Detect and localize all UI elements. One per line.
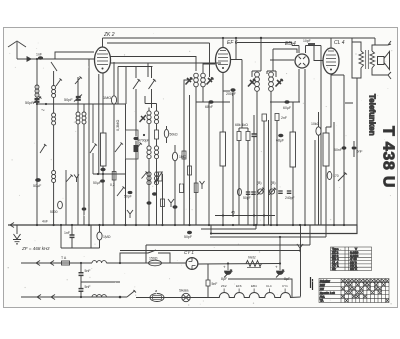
wire c81 col <box>80 263 82 297</box>
transformer T-out primary <box>359 51 364 68</box>
elco C+1 <box>225 264 232 275</box>
svg-text:4nF: 4nF <box>42 220 48 224</box>
switch S1c <box>66 170 73 225</box>
wire L2 down <box>53 125 55 170</box>
IF transformer T2 coils <box>255 72 274 91</box>
wire EF6 cath col <box>222 72 224 225</box>
svg-text:Sk: Sk <box>332 267 336 271</box>
node 256 <box>255 224 257 226</box>
svg-text:50µF: 50µF <box>33 184 42 188</box>
bypass loop <box>120 250 170 263</box>
svg-text:CL 4: CL 4 <box>334 40 345 46</box>
switch mains <box>127 290 136 297</box>
node A2 <box>45 103 47 105</box>
wire EB4 bottom <box>299 69 305 225</box>
IF transformer T1 coils <box>194 73 206 87</box>
wire EB4 top right <box>292 46 306 54</box>
table voltages <box>331 247 372 271</box>
wire EB4 grid feed <box>273 49 297 71</box>
TABLES <box>311 247 390 303</box>
wire c354 stub <box>353 141 355 157</box>
wire 45V row <box>215 215 275 217</box>
wire L1 top <box>36 59 38 85</box>
heater taps <box>224 289 285 294</box>
wire col98 <box>98 74 100 174</box>
svg-text:a: a <box>155 289 157 293</box>
coil L2a <box>53 71 55 86</box>
wire col300 pwr <box>300 251 302 297</box>
svg-text:8µF: 8µF <box>221 277 227 281</box>
switch S1a <box>51 62 57 71</box>
wire T1 left lead <box>184 80 188 88</box>
wire T1 bottoms <box>196 87 203 95</box>
capacitor c211 <box>208 100 213 104</box>
node 81b <box>80 296 82 298</box>
node 211 <box>210 232 212 234</box>
trimmer T2 right <box>276 79 284 87</box>
wire col99 <box>99 225 101 248</box>
wire box leg2 cont <box>125 104 127 130</box>
sub bus a <box>201 225 256 229</box>
wire long avc top <box>107 43 292 46</box>
wire bus drop 375 <box>374 38 376 45</box>
mains rail bottom <box>21 296 127 298</box>
svg-text:1MΩ: 1MΩ <box>103 235 111 239</box>
resistor oval 150 <box>149 260 162 266</box>
wire R5 legs <box>325 127 327 133</box>
node B+ junction <box>260 37 262 39</box>
node osc <box>143 134 145 136</box>
ground chassis <box>13 225 21 244</box>
resistor r162 <box>161 199 165 207</box>
transformer T-out core <box>366 50 369 69</box>
wire col315 <box>314 140 316 225</box>
jack Y3 <box>168 199 174 207</box>
svg-text:CL4: CL4 <box>266 284 272 288</box>
wire coupling box line b <box>110 63 221 77</box>
svg-text:5nF: 5nF <box>85 269 91 273</box>
coil L3 pair <box>76 112 80 116</box>
coil osc third <box>147 172 151 176</box>
wire EF6 anode <box>231 38 243 62</box>
wire col233 <box>232 91 234 216</box>
wire elco common <box>228 279 292 297</box>
coil L2c <box>52 171 56 175</box>
svg-text:Skala: Skala <box>179 289 189 293</box>
node 120t <box>119 262 121 264</box>
trimmer tc272 <box>269 189 274 194</box>
resistor r189a <box>188 166 192 175</box>
table1 rows text <box>332 247 359 271</box>
capacitor c81b <box>79 289 84 292</box>
wire EF6 top <box>222 38 224 48</box>
svg-text:Sperrkr. Luft: Sperrkr. Luft <box>320 291 335 295</box>
wire col162 <box>162 174 164 225</box>
wire box leg2 bus <box>125 159 127 225</box>
svg-text:50pF: 50pF <box>184 235 192 239</box>
resistor r158 <box>158 172 162 181</box>
speaker LS <box>378 52 390 70</box>
node 81t <box>80 262 82 264</box>
choke bottom <box>92 295 106 297</box>
svg-text:60µF: 60µF <box>283 106 291 110</box>
capacitor c354 <box>352 146 357 149</box>
trimmer C2 <box>76 97 81 100</box>
svg-text:200pF: 200pF <box>226 92 236 96</box>
wire coupling box top <box>118 66 153 68</box>
scan noise <box>8 33 393 306</box>
resistor oval r240 <box>238 188 242 195</box>
wire col321b <box>320 48 322 225</box>
node c233b <box>232 214 234 216</box>
resistor r264 <box>262 114 267 121</box>
resistor r248 <box>247 128 249 225</box>
main chassis bus <box>8 225 357 234</box>
wire EB4 left line <box>270 59 294 61</box>
wire 280 riser <box>279 237 281 263</box>
wire osc bottoms <box>149 159 157 225</box>
heater chain <box>218 293 301 298</box>
svg-text:EF6: EF6 <box>236 284 242 288</box>
wire col72 <box>71 225 73 248</box>
switch S3c <box>134 143 142 153</box>
wire c233 left <box>223 90 230 92</box>
sub bus c <box>146 225 310 263</box>
wire far right down <box>352 78 357 225</box>
wire top grid line <box>55 52 94 59</box>
svg-text:150Ω: 150Ω <box>149 257 158 261</box>
trimmer C1 <box>35 99 40 102</box>
node ant1 <box>36 58 38 60</box>
wire sub row 248 <box>61 247 100 249</box>
svg-text:1MΩ: 1MΩ <box>179 155 187 159</box>
wire box leg 2 <box>125 67 127 105</box>
wire row 174 <box>93 173 126 175</box>
node 45c <box>263 214 265 216</box>
svg-text:1nF: 1nF <box>64 231 70 235</box>
svg-text:MW: MW <box>320 283 325 287</box>
trimmer tc260 <box>258 189 263 194</box>
wire ZK2 top cap <box>102 38 104 47</box>
node A junction <box>36 103 38 105</box>
wire CL4 anode to primary <box>352 42 361 51</box>
jack Y1 <box>127 210 133 218</box>
svg-text:ZK2: ZK2 <box>221 284 227 288</box>
wire col293 <box>292 102 294 225</box>
capacitor blob102 <box>100 179 105 182</box>
capacitor c287 <box>284 100 289 104</box>
table2 content <box>320 279 335 303</box>
capacitor blob R1b <box>100 168 105 171</box>
resistor R2 oval <box>111 96 116 104</box>
capacitor C-eb <box>308 43 315 45</box>
sub bus b <box>210 166 326 237</box>
capacitor c175 <box>173 205 178 208</box>
node 45b <box>253 214 255 216</box>
tube ZK2 <box>95 47 111 73</box>
wire avc col <box>88 59 90 225</box>
wire col254 <box>253 115 255 225</box>
osc coil La <box>147 111 151 115</box>
wire antenna lead <box>17 58 94 60</box>
svg-text:Ant.: Ant. <box>320 295 325 299</box>
wire eb link <box>306 46 322 49</box>
resistor oval r166 <box>164 129 168 137</box>
lamp Skala <box>182 293 190 301</box>
svg-text:240pF: 240pF <box>285 196 295 200</box>
wire CL4 top <box>330 38 332 48</box>
wire secondary top to terminal <box>372 41 391 51</box>
svg-text:(B): (B) <box>271 181 276 185</box>
capacitor c233 <box>230 88 235 92</box>
resistor r184 <box>182 151 186 159</box>
resistor oval r175 <box>172 152 177 161</box>
svg-text:50pF: 50pF <box>124 195 132 199</box>
svg-text:TA: TA <box>320 299 323 303</box>
switch S1b <box>56 79 62 87</box>
capacitor c289 <box>287 191 292 193</box>
plug arrows top <box>36 261 54 266</box>
switch S3b <box>115 143 123 153</box>
svg-text:~: ~ <box>41 107 45 114</box>
wire col91 <box>90 225 92 248</box>
capacitor c254 <box>252 134 257 136</box>
trimmer osc <box>140 115 147 122</box>
wire sub61 <box>60 225 62 248</box>
svg-text:50kΩ: 50kΩ <box>170 133 178 137</box>
capacitor c72 <box>70 235 75 237</box>
switch S3a <box>90 104 97 174</box>
coil L2b <box>53 98 55 114</box>
wire r166 stubs <box>166 126 168 143</box>
elco C+2 <box>277 264 284 275</box>
wire T1 top to EF6 <box>203 64 215 73</box>
rail top cont <box>106 262 185 264</box>
node 45a <box>222 214 224 216</box>
resistor R5 tall <box>323 133 329 166</box>
svg-text:50pF: 50pF <box>64 98 73 102</box>
wire L1 bottom <box>36 97 38 104</box>
wire mid 282 <box>81 281 120 283</box>
node r174b <box>97 173 99 175</box>
node ef6top <box>222 37 224 39</box>
resistor r196 <box>194 183 198 193</box>
table switch <box>319 279 389 303</box>
svg-text:Netz: Netz <box>248 256 256 260</box>
capacitor C50u <box>35 178 41 182</box>
node 280b <box>279 262 281 264</box>
wire col264 <box>263 121 265 225</box>
wire col208 pwr <box>207 264 209 298</box>
svg-text:+: + <box>223 265 226 270</box>
resistor oval r330 <box>327 172 332 180</box>
svg-text:2nF: 2nF <box>281 116 287 120</box>
svg-text:50pF: 50pF <box>25 101 34 105</box>
svg-text:0,3MΩ: 0,3MΩ <box>116 120 120 131</box>
capacitor c81a <box>79 273 84 276</box>
node 280 <box>279 236 281 238</box>
capacitor c189b <box>187 231 192 234</box>
fuse oval Si <box>150 294 164 302</box>
wire T2 frame <box>252 71 276 77</box>
plug arrows bottom <box>37 295 55 300</box>
wire osc branch top <box>75 77 82 105</box>
svg-text:T A: T A <box>61 256 67 260</box>
switch S2b <box>149 67 157 108</box>
wire col344 <box>331 75 353 225</box>
wire AVC row <box>37 103 126 105</box>
terminal arrow bus <box>10 223 14 228</box>
capacitor blob150 <box>147 201 152 204</box>
switch S5 <box>155 172 163 183</box>
svg-text:1MΩ: 1MΩ <box>103 96 111 100</box>
sub bus d <box>120 225 301 251</box>
svg-text:50µF: 50µF <box>93 181 101 185</box>
switch S6 <box>338 173 347 182</box>
capacitor blob130 <box>128 191 133 194</box>
wire col196 <box>195 95 197 225</box>
svg-text:19/ X: 19/ X <box>350 267 357 271</box>
padder loop <box>126 130 139 159</box>
capacitor blob154 <box>152 192 157 195</box>
osc coil Lb <box>147 146 151 150</box>
svg-text:EB4: EB4 <box>251 284 257 288</box>
trimmer T2 left <box>248 79 256 87</box>
svg-text:+: + <box>275 265 278 270</box>
wire B+ drop to T2 <box>260 38 262 71</box>
wire table stubs <box>311 277 313 290</box>
wire left col2 <box>36 104 38 225</box>
svg-text:Schalter: Schalter <box>320 279 330 283</box>
wire osc coil tops <box>145 96 157 111</box>
wire col146 pwr <box>145 245 147 263</box>
wire h102a <box>196 101 230 103</box>
resistor oval r99 <box>97 232 102 240</box>
wire col209 <box>208 102 210 225</box>
wire anode feed <box>241 62 243 128</box>
padder cap blob <box>134 145 139 152</box>
node B <box>119 296 122 299</box>
jack Y5 <box>74 175 79 183</box>
wire secondary bottom to terminal <box>372 68 391 79</box>
wire col211 stub <box>210 225 212 234</box>
tube EB4 <box>295 54 309 68</box>
mains rail top <box>21 262 92 264</box>
tube EF6 <box>216 48 231 73</box>
wire col257 <box>256 102 258 225</box>
rail bottom cont <box>136 297 218 299</box>
svg-text:EB 4: EB 4 <box>285 41 296 47</box>
jack Y4 <box>200 181 205 189</box>
capacitor c280 <box>278 191 283 193</box>
resistor oval r60 <box>58 201 63 209</box>
wire h102b <box>270 101 300 103</box>
wire col268 <box>268 120 270 225</box>
wire B+ to output transformer <box>352 38 361 78</box>
jack Y2 <box>297 244 303 252</box>
svg-text:5nF: 5nF <box>85 285 91 289</box>
wire CL4 cath <box>326 74 331 127</box>
capacitor C4700 blob <box>133 137 138 140</box>
wire CL4 grid <box>314 46 323 61</box>
svg-text:T 438 U: T 438 U <box>380 126 397 188</box>
svg-text:CY1: CY1 <box>282 284 288 288</box>
svg-text:5nF: 5nF <box>212 282 218 286</box>
resistor r208 <box>206 280 210 286</box>
switch S1d <box>40 144 47 153</box>
switch S4 <box>117 187 125 197</box>
svg-text:170: 170 <box>333 174 339 178</box>
wire h128 <box>239 127 248 129</box>
svg-text:ZF = 468 kHz: ZF = 468 kHz <box>21 246 50 251</box>
wire ZK2 cathode col <box>102 73 104 225</box>
wire col277 <box>276 121 278 226</box>
resistor R3s <box>155 130 159 139</box>
resistor r114b <box>112 172 116 181</box>
wire col184 <box>183 88 185 225</box>
wire col318 <box>318 112 320 225</box>
capacitor c344 <box>342 146 347 149</box>
wire osc col to bus <box>78 102 84 225</box>
capacitor c248 <box>246 192 251 194</box>
svg-text:Telefunken: Telefunken <box>368 94 377 136</box>
wire osc mid <box>149 124 157 146</box>
svg-text:5000: 5000 <box>50 210 58 214</box>
fuse F1 <box>62 261 70 265</box>
resistor oval r318 <box>316 127 321 135</box>
svg-text:50pF: 50pF <box>243 196 251 200</box>
svg-text:68k 1kΩ: 68k 1kΩ <box>235 123 248 127</box>
wire col334 <box>333 122 335 225</box>
wire col203 <box>202 95 204 102</box>
resistor r277 <box>275 114 279 121</box>
wire coupling box line a <box>110 57 196 72</box>
svg-text:(B): (B) <box>257 181 262 185</box>
trimmer T1 right <box>207 78 214 85</box>
rail after CY1 <box>198 263 281 266</box>
switch S2a <box>133 67 141 110</box>
table2 header marks <box>341 279 388 302</box>
antenna <box>8 41 26 59</box>
svg-text:1nF: 1nF <box>36 53 42 57</box>
choke top <box>92 261 106 263</box>
wire T1 right drop <box>209 43 211 77</box>
resistor R1 tall <box>101 133 107 166</box>
capacitor c253 <box>251 192 256 194</box>
capacitor c281 blob <box>278 134 283 138</box>
node an236 <box>235 37 237 39</box>
trimmer T1 left <box>186 78 193 85</box>
tube CL4 <box>323 48 339 74</box>
resistor R4 tall <box>290 132 296 167</box>
svg-text:4700pF: 4700pF <box>138 139 150 143</box>
svg-text:45: 45 <box>231 211 235 215</box>
transformer T-out secondary <box>370 51 375 68</box>
wire R2 col <box>113 62 115 225</box>
svg-text:LW: LW <box>320 287 324 291</box>
tube CY1 <box>186 258 198 270</box>
wire top bus <box>103 37 376 39</box>
node bus dots <box>36 224 345 226</box>
wire osc grid col <box>135 110 137 225</box>
wire L2 to bus <box>53 183 55 226</box>
node r174a <box>102 173 104 175</box>
svg-text:0,2: 0,2 <box>110 183 115 187</box>
svg-text:50nF: 50nF <box>334 148 342 152</box>
resistor r239 <box>238 128 240 225</box>
svg-text:ZK 2: ZK 2 <box>103 32 115 38</box>
svg-text:CY 1: CY 1 <box>184 250 194 255</box>
